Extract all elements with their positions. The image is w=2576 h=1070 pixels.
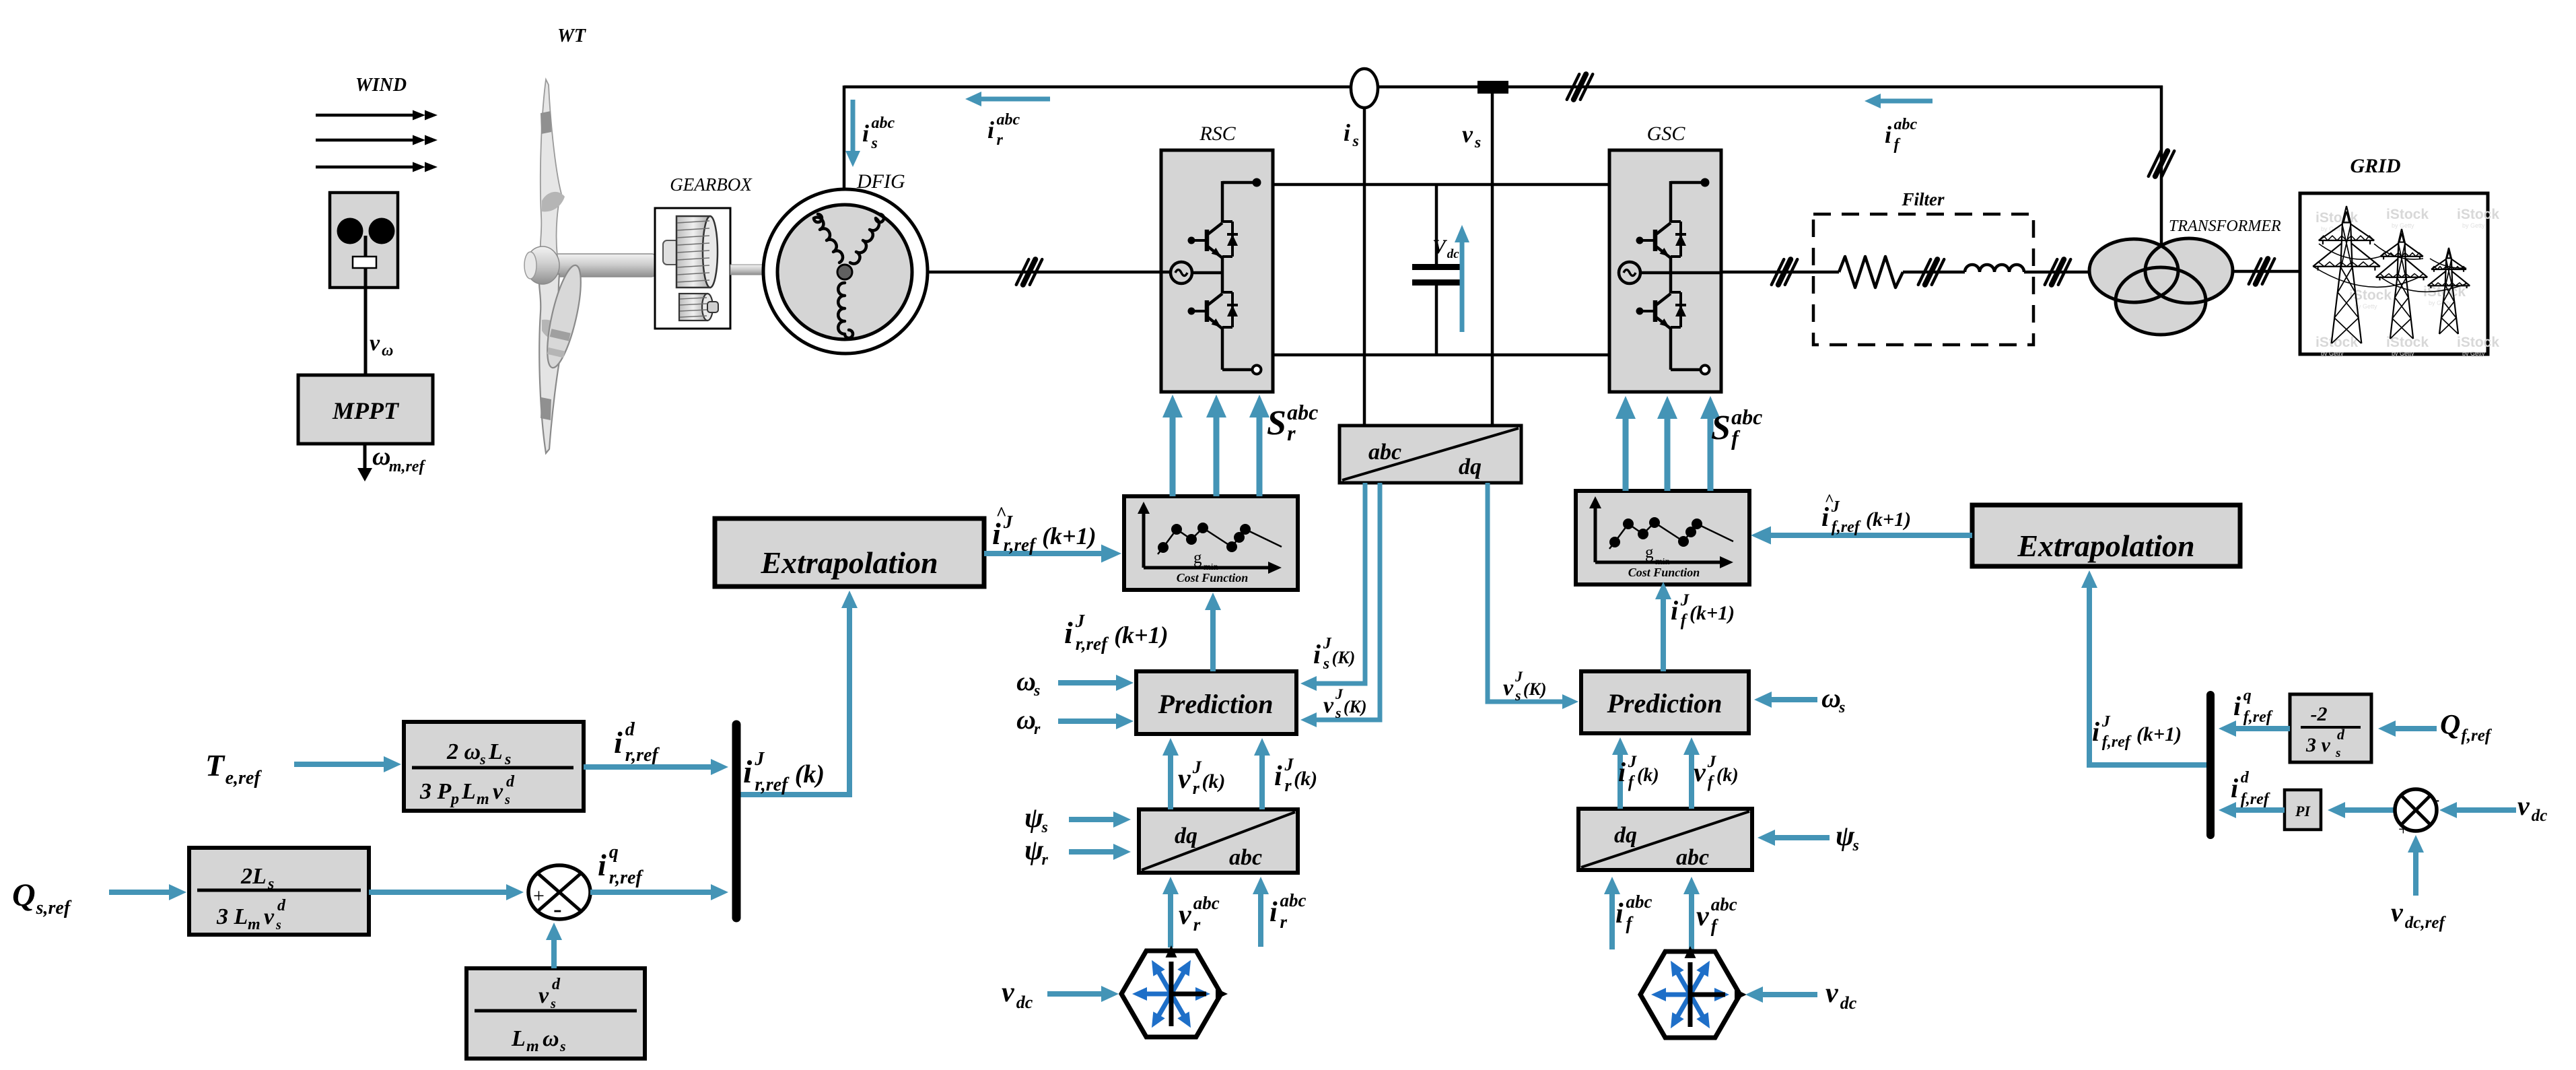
svg-text:m: m	[526, 1038, 539, 1055]
svg-text:v: v	[1503, 675, 1514, 700]
svg-text:abc: abc	[1676, 845, 1709, 870]
svg-text:Cost Function: Cost Function	[1628, 566, 1700, 579]
svg-text:iStock: iStock	[2316, 210, 2358, 226]
svg-text:J: J	[1284, 755, 1294, 774]
label i_s	[1344, 119, 1359, 150]
svg-text:J: J	[1192, 758, 1202, 777]
svg-text:s: s	[1838, 699, 1845, 716]
svg-text:m: m	[477, 791, 489, 808]
label i_r,ref J(k+1)	[1064, 611, 1169, 654]
svg-text:q: q	[2243, 687, 2252, 704]
label i_r,ref q	[598, 842, 643, 888]
wire bar-extrapolation	[740, 591, 858, 795]
svg-text:d: d	[506, 773, 515, 791]
label i_s J(K)	[1313, 635, 1355, 673]
svg-text:m: m	[248, 916, 260, 933]
arrow v_r J	[1162, 738, 1179, 809]
svg-text:J: J	[1707, 753, 1717, 771]
arrow vdcref-sum	[2408, 835, 2424, 896]
label Q_f,ref	[2440, 710, 2493, 745]
svg-text:L: L	[488, 739, 503, 764]
svg-text:s: s	[2335, 746, 2340, 760]
block Prediction GSC	[1581, 671, 1749, 733]
label S_f abc	[1711, 405, 1762, 450]
svg-text:i: i	[2233, 691, 2241, 721]
block Prediction RSC	[1136, 671, 1296, 734]
svg-text:r: r	[1284, 776, 1292, 795]
arrow i_r abc	[965, 92, 1050, 106]
svg-text:r: r	[1193, 914, 1201, 935]
label i_r,ref J(k)	[743, 749, 825, 795]
label T_e,ref	[205, 748, 262, 789]
label i_r abc in	[1269, 890, 1306, 932]
svg-text:GSC: GSC	[1647, 123, 1686, 145]
arrow prediction-cf left	[1205, 593, 1221, 671]
svg-text:s: s	[479, 751, 486, 768]
label i_f J(k)	[1618, 753, 1659, 791]
svg-text:3 v: 3 v	[2305, 734, 2331, 756]
transform dq-abc gsc	[1578, 809, 1752, 870]
svg-text:+: +	[533, 885, 545, 907]
arrow Te-box	[294, 756, 401, 772]
svg-text:J: J	[2101, 713, 2111, 731]
svg-text:ω: ω	[1821, 683, 1841, 713]
svg-text:dc: dc	[1840, 993, 1857, 1013]
svg-text:Q: Q	[2440, 710, 2460, 741]
arrow vsLm-sum	[546, 923, 562, 968]
svg-text:PI: PI	[2295, 803, 2311, 820]
svg-text:(k): (k)	[1637, 765, 1659, 786]
svg-text:3 P: 3 P	[419, 779, 452, 804]
arrow v_dc left	[1047, 986, 1119, 1002]
svg-text:3 L: 3 L	[216, 904, 248, 929]
svg-text:-: -	[2433, 789, 2439, 810]
svg-text:dc: dc	[2532, 807, 2548, 825]
label i_f abc	[1885, 116, 1918, 154]
label WT	[557, 26, 587, 46]
svg-text:Prediction: Prediction	[1157, 689, 1273, 719]
svg-text:r,ref: r,ref	[1076, 634, 1109, 654]
wire dc bus top	[1273, 183, 1609, 187]
svg-text:i: i	[1618, 757, 1626, 787]
arrow extrapolation-cf right	[1751, 527, 1972, 545]
svg-text:iStock: iStock	[2386, 207, 2429, 222]
SVM hexagon GSC	[1640, 946, 1747, 1038]
arrow i_r abc in	[1253, 877, 1269, 947]
wire top bus	[844, 86, 2163, 250]
svg-text:r: r	[1042, 851, 1049, 869]
block PI	[2285, 790, 2321, 830]
DFIG generator	[763, 189, 928, 354]
svg-text:f,ref: f,ref	[2243, 708, 2273, 726]
svg-text:J: J	[1335, 686, 1344, 702]
label i_f J(k+1)	[1671, 591, 1735, 630]
svg-text:Q: Q	[12, 877, 36, 913]
svg-text:v: v	[1323, 693, 1334, 718]
block Extrapolation RSC	[715, 519, 984, 587]
arrow w_s right	[1754, 692, 1817, 708]
svg-text:s,ref: s,ref	[36, 898, 72, 918]
svg-text:GRID: GRID	[2350, 155, 2400, 177]
svg-text:s: s	[1335, 704, 1342, 721]
dc-link capacitor	[1412, 185, 1461, 355]
arrow psi_s left	[1069, 811, 1131, 828]
label psi_r left	[1024, 835, 1049, 869]
label V_dc	[1432, 236, 1459, 261]
svg-text:g: g	[1645, 543, 1654, 562]
filter inductor	[1965, 265, 2024, 272]
label psi_s left	[1024, 803, 1048, 836]
block Extrapolation GSC	[1972, 505, 2240, 566]
wind turbine WT	[524, 79, 657, 453]
label w_s left	[1016, 666, 1040, 700]
svg-text:r,ref: r,ref	[755, 774, 790, 795]
svg-text:d: d	[277, 897, 286, 914]
label v_s J(K) right	[1503, 668, 1547, 704]
filter resistor	[1839, 257, 1903, 288]
hash rotor wire	[1016, 259, 1042, 285]
svg-text:s: s	[275, 918, 281, 933]
wire v_s J right	[1488, 483, 1578, 709]
svg-text:Extrapolation: Extrapolation	[760, 545, 938, 580]
svg-text:r: r	[1193, 778, 1200, 798]
label v_s	[1462, 121, 1481, 152]
block MPPT	[298, 375, 433, 444]
arrow Qf-gain	[2378, 721, 2437, 737]
label i_r,ref hat J(k+1)	[992, 504, 1096, 555]
svg-text:J: J	[1003, 512, 1014, 532]
mux bar left	[732, 725, 741, 918]
arrow i_s abc	[845, 100, 860, 167]
svg-text:by Getty: by Getty	[2392, 222, 2414, 229]
transformer	[2089, 238, 2233, 335]
svg-text:J: J	[1323, 635, 1332, 653]
svg-text:J: J	[1831, 498, 1840, 516]
label v_dc,ref	[2391, 897, 2446, 932]
svg-text:s: s	[1852, 837, 1859, 855]
label i_f,ref q	[2233, 687, 2273, 726]
svg-text:v: v	[493, 779, 503, 804]
svg-text:S: S	[1711, 409, 1731, 447]
voltage sensor v_s	[1477, 81, 1508, 426]
svg-text:v: v	[2517, 791, 2530, 821]
gain block -2/3vsd	[2290, 694, 2371, 762]
svg-text:Prediction: Prediction	[1606, 688, 1722, 718]
svg-text:J: J	[1680, 591, 1690, 609]
svg-text:by Getty: by Getty	[2429, 300, 2451, 306]
label psi_s right	[1836, 821, 1859, 855]
label v_w	[370, 331, 393, 360]
anemometer sensor	[330, 193, 398, 375]
label GEARBOX	[670, 174, 753, 195]
svg-text:m,ref: m,ref	[389, 458, 426, 475]
svg-text:abc: abc	[872, 114, 895, 132]
wire L-transformer	[2024, 271, 2089, 274]
arrow v_f J	[1683, 737, 1700, 809]
svg-text:r: r	[1034, 721, 1041, 738]
svg-text:dq: dq	[1459, 455, 1482, 479]
svg-text:f,ref: f,ref	[2241, 791, 2270, 808]
svg-text:-2: -2	[2311, 703, 2328, 725]
svg-text:r,ref: r,ref	[625, 745, 660, 766]
svg-text:s: s	[1041, 819, 1048, 836]
svg-text:i: i	[614, 725, 623, 760]
svg-text:v: v	[1694, 757, 1706, 787]
svg-text:e,ref: e,ref	[225, 768, 263, 789]
svg-text:abc: abc	[1711, 894, 1737, 914]
svg-text:(k+1): (k+1)	[2136, 723, 2182, 745]
label Filter	[1901, 189, 1944, 209]
svg-text:MPPT: MPPT	[332, 397, 400, 424]
gate signals S_r	[1162, 395, 1269, 496]
svg-text:i: i	[862, 120, 869, 147]
arrow box-bar d	[584, 759, 728, 775]
svg-text:d: d	[2241, 769, 2250, 787]
svg-text:d: d	[625, 719, 635, 740]
svg-text:RSC: RSC	[1199, 123, 1236, 145]
svg-text:L: L	[461, 779, 476, 804]
svg-text:i: i	[2092, 716, 2099, 747]
svg-text:s: s	[559, 1038, 566, 1055]
wire rotor DFIG-RSC	[928, 271, 1161, 274]
svg-text:i: i	[1313, 639, 1321, 669]
svg-text:p: p	[450, 791, 459, 808]
svg-text:V: V	[1432, 236, 1448, 258]
arrow vdc-sum	[2439, 802, 2516, 818]
arrow v_dc right hex	[1745, 987, 1817, 1003]
svg-text:dc: dc	[1016, 993, 1033, 1012]
label w_s right	[1821, 683, 1845, 716]
label v_dc right hex	[1825, 978, 1857, 1013]
svg-text:q: q	[609, 842, 619, 863]
svg-text:J: J	[754, 749, 765, 770]
svg-text:v: v	[264, 904, 275, 929]
svg-text:dq: dq	[1175, 824, 1197, 848]
wire bar-extrapolation right	[2081, 570, 2212, 765]
label GSC	[1647, 123, 1686, 145]
svg-text:abc: abc	[997, 111, 1020, 129]
svg-text:v: v	[1002, 977, 1015, 1008]
hash grid wire	[2249, 259, 2274, 284]
svg-text:s: s	[504, 793, 510, 807]
svg-text:i: i	[1269, 897, 1278, 928]
svg-text:+: +	[2398, 820, 2408, 839]
wire transformer-grid	[2233, 270, 2300, 273]
wire stator to bus	[843, 86, 846, 191]
svg-text:s: s	[1033, 682, 1040, 700]
label i_f,ref d	[2231, 769, 2270, 808]
label v_r abc	[1179, 893, 1220, 935]
svg-text:s: s	[1515, 687, 1521, 704]
svg-text:iStock: iStock	[2457, 207, 2499, 222]
gain block vs-Lm	[466, 968, 645, 1059]
svg-text:(k): (k)	[1294, 768, 1317, 790]
block Cost Function RSC	[1124, 496, 1298, 590]
arrow w_s left	[1058, 675, 1134, 691]
wire GSC-filter	[1721, 271, 1839, 274]
label v_f abc	[1696, 894, 1737, 936]
block Cost Function GSC	[1576, 491, 1749, 584]
svg-text:ω: ω	[372, 442, 390, 471]
svg-text:DFIG: DFIG	[856, 170, 905, 193]
svg-text:v: v	[2391, 897, 2404, 927]
summing junction vdc	[2395, 789, 2439, 839]
arrow i_r J	[1254, 738, 1270, 809]
svg-text:i: i	[987, 116, 994, 143]
arrow psi_s right	[1757, 830, 1830, 846]
label i_r,ref d	[614, 719, 660, 766]
label v_r J(k)	[1178, 758, 1225, 798]
arrow V_dc	[1455, 225, 1469, 332]
svg-text:T: T	[205, 748, 225, 782]
svg-text:Cost Function: Cost Function	[1177, 571, 1249, 584]
svg-text:i: i	[743, 754, 753, 790]
arrow i_f abc in	[1604, 877, 1620, 949]
label i_f,ref hat J(k+1)	[1821, 492, 1911, 536]
label i_f,ref J(k+1)	[2092, 713, 2182, 751]
label TRANSFORMER	[2169, 218, 2281, 235]
svg-text:L: L	[511, 1026, 526, 1051]
arrow box-sum	[369, 884, 524, 900]
hash filter out	[2045, 259, 2070, 285]
label i_s abc	[862, 114, 895, 152]
svg-text:abc: abc	[1229, 845, 1262, 870]
label w_r left	[1016, 704, 1041, 738]
hash GSC out	[1772, 259, 1797, 285]
label w_m,ref	[372, 442, 425, 475]
svg-text:d: d	[552, 976, 561, 993]
label WIND	[355, 75, 407, 96]
wire RSC dc stubs	[1272, 183, 1275, 187]
svg-text:v: v	[1179, 900, 1192, 931]
svg-text:s: s	[1474, 134, 1481, 152]
converter RSC	[1161, 150, 1273, 392]
label Q_s,ref	[12, 877, 72, 918]
svg-text:r: r	[997, 131, 1004, 149]
svg-text:s: s	[1352, 133, 1359, 150]
svg-text:abc: abc	[1894, 116, 1918, 133]
gate signals S_f	[1615, 396, 1720, 491]
svg-text:(K): (K)	[1523, 679, 1547, 699]
mux bar right	[2206, 695, 2215, 835]
svg-text:GEARBOX: GEARBOX	[670, 174, 753, 195]
arrow v_f abc	[1683, 877, 1700, 949]
svg-text:ω: ω	[543, 1026, 559, 1051]
label i_f abc in	[1615, 892, 1652, 933]
svg-text:abc: abc	[1626, 892, 1652, 912]
transform dq-abc rotor	[1139, 809, 1298, 873]
svg-text:i: i	[1615, 898, 1624, 929]
svg-text:(k): (k)	[795, 760, 825, 789]
svg-text:by Getty: by Getty	[2321, 350, 2344, 357]
svg-text:r,ref: r,ref	[609, 867, 644, 888]
svg-text:v: v	[538, 983, 549, 1008]
arrow v_r abc	[1162, 877, 1179, 947]
label v_dc right	[2517, 791, 2547, 825]
svg-text:r: r	[1287, 421, 1296, 445]
label v_s J(K) left	[1323, 686, 1367, 721]
svg-text:iStock: iStock	[2316, 335, 2358, 350]
svg-text:(k+1): (k+1)	[1042, 523, 1096, 549]
svg-text:s: s	[1323, 655, 1329, 673]
wire i_s J	[1300, 483, 1365, 691]
label i_r abc	[987, 111, 1020, 149]
svg-text:s: s	[504, 751, 511, 768]
svg-text:Filter: Filter	[1901, 189, 1944, 209]
svg-text:g: g	[1193, 549, 1202, 567]
hash bus vertical	[2149, 151, 2174, 176]
svg-text:2 ω: 2 ω	[446, 739, 481, 764]
svg-text:TRANSFORMER: TRANSFORMER	[2169, 218, 2281, 235]
svg-text:s: s	[871, 135, 878, 152]
arrow psi_r left	[1069, 844, 1131, 860]
wire R-L	[1903, 271, 1965, 274]
wire v_s J left	[1300, 483, 1380, 727]
converter GSC	[1609, 150, 1721, 392]
svg-text:v: v	[370, 331, 380, 356]
svg-text:i: i	[2231, 773, 2238, 803]
svg-text:(K): (K)	[1332, 648, 1356, 667]
svg-text:(k+1): (k+1)	[1866, 508, 1911, 531]
wire MPPT output	[357, 444, 372, 481]
label v_dc left	[1002, 977, 1033, 1012]
svg-text:J: J	[1075, 611, 1086, 631]
svg-text:dq: dq	[1614, 823, 1637, 848]
svg-text:Extrapolation: Extrapolation	[2017, 529, 2194, 563]
svg-text:v: v	[1825, 978, 1839, 1009]
summing junction q	[528, 865, 590, 923]
svg-text:(k+1): (k+1)	[1114, 622, 1169, 648]
current sensor i_s	[1351, 69, 1378, 426]
arrow i_f abc	[1865, 94, 1933, 108]
svg-text:i: i	[1064, 615, 1073, 650]
svg-text:S: S	[1267, 404, 1286, 442]
label RSC	[1199, 123, 1236, 145]
svg-text:d: d	[2337, 726, 2345, 743]
shaft gearbox-DFIG	[730, 265, 764, 275]
svg-text:J: J	[1628, 753, 1638, 771]
svg-text:(K): (K)	[1344, 697, 1367, 716]
svg-text:abc: abc	[1280, 890, 1306, 910]
arrow PI-bar	[2219, 802, 2285, 818]
label i_r J(k)	[1274, 755, 1317, 795]
svg-text:r: r	[1280, 912, 1287, 932]
label GRID	[2350, 155, 2400, 177]
hash filter mid	[1918, 259, 1944, 285]
label v_f J(k)	[1694, 753, 1739, 791]
svg-text:i: i	[1344, 119, 1350, 146]
arrow prediction-cf right	[1655, 582, 1671, 671]
svg-text:(k): (k)	[1202, 770, 1225, 793]
svg-text:i: i	[1885, 121, 1891, 148]
transform abc-dq grid meas	[1339, 426, 1521, 483]
svg-text:i: i	[598, 848, 606, 882]
arrow extrapolation-cf left	[984, 545, 1121, 563]
filter dashed box	[1813, 214, 2033, 345]
svg-text:WIND: WIND	[355, 75, 407, 96]
svg-text:f,ref: f,ref	[2461, 727, 2492, 745]
svg-text:abc: abc	[1368, 440, 1401, 465]
gain block q-axis	[189, 848, 369, 935]
label DFIG	[856, 170, 905, 193]
SVM hexagon RSC	[1121, 945, 1228, 1037]
svg-text:i: i	[1274, 761, 1282, 792]
svg-text:by Getty: by Getty	[2392, 350, 2414, 357]
svg-text:J: J	[1515, 668, 1523, 685]
svg-text:iStock: iStock	[2457, 335, 2499, 350]
svg-text:by Getty: by Getty	[2462, 222, 2485, 229]
wind arrows	[316, 110, 438, 172]
